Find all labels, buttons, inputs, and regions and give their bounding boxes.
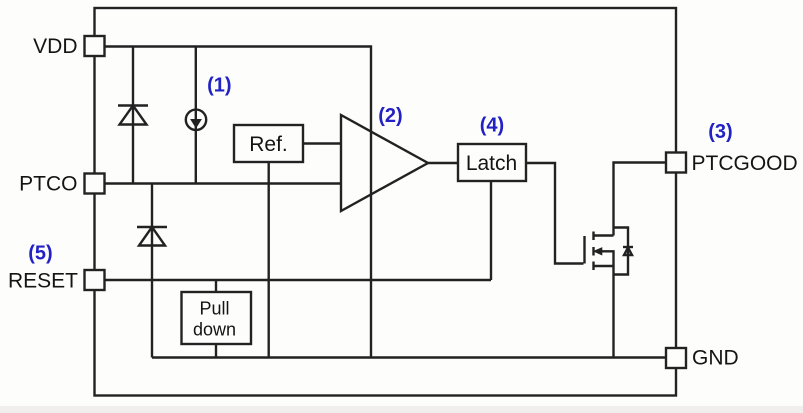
wire Pull-down top connector [215, 280, 217, 292]
pin PTCO [85, 174, 105, 194]
svg-text:(3): (3) [708, 121, 732, 143]
svg-text:VDD: VDD [33, 35, 77, 58]
wire Latch output to MOSFET gate [526, 163, 584, 264]
svg-text:PTCGOOD: PTCGOOD [692, 152, 798, 175]
svg-text:(4): (4) [480, 115, 504, 137]
svg-text:(5): (5) [28, 243, 52, 265]
wire MOSFET source to ground bus [612, 266, 614, 358]
svg-text:PTCO: PTCO [19, 173, 77, 196]
wire Ref output to comparator [303, 142, 341, 144]
pin RESET [85, 270, 105, 290]
wire PTCGOOD to MOSFET drain [614, 163, 667, 236]
block Ref [234, 125, 303, 162]
svg-text:down: down [193, 320, 236, 340]
pin VDD [85, 36, 105, 56]
wire VDD rail [105, 47, 372, 358]
IC boundary rectangle [95, 8, 677, 396]
wire comparator output to Latch [428, 162, 458, 164]
wire Pull-down bottom connector [215, 344, 217, 358]
svg-text:Ref.: Ref. [249, 133, 288, 156]
wire diode D1 branch [132, 47, 134, 184]
wire diode D2 branch [151, 184, 153, 358]
svg-text:Latch: Latch [466, 152, 517, 175]
wire PTCO rail [105, 182, 342, 184]
op-amp comparator U1 [341, 115, 428, 211]
svg-text:(2): (2) [378, 105, 402, 127]
svg-text:GND: GND [692, 347, 739, 370]
wire ground bus [152, 356, 666, 358]
diode D1 [118, 106, 148, 125]
block Pull down [182, 292, 252, 344]
diode D2 [137, 227, 167, 246]
wire current source branch [195, 47, 197, 184]
wire Ref bottom to ground bus [268, 162, 270, 358]
wire Latch bottom to RESET rail [490, 181, 492, 280]
svg-text:Pull: Pull [199, 299, 229, 319]
svg-text:(1): (1) [207, 75, 231, 97]
svg-text:RESET: RESET [8, 270, 78, 293]
pin PTCGOOD [666, 153, 686, 173]
pin GND [666, 348, 686, 368]
wire RESET rail [105, 279, 492, 281]
block Latch [458, 144, 526, 181]
current source I1 [186, 110, 206, 130]
transistor Q1 (N-MOSFET with body diode) [585, 228, 634, 275]
